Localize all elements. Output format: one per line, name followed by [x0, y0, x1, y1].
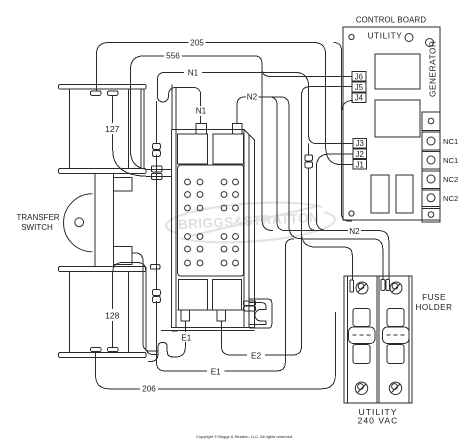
N2 terminal tab — [232, 124, 242, 135]
svg-text:J5: J5 — [355, 83, 364, 92]
neutral bar box — [178, 165, 244, 276]
fuse2 bottom screw — [389, 382, 401, 394]
panel bottom edge second line — [161, 330, 254, 332]
svg-text:J4: J4 — [355, 94, 364, 103]
fuse holder outline — [344, 276, 412, 403]
E2 terminal tab — [217, 310, 226, 321]
wire J2 to N2 run — [316, 154, 353, 231]
wire from actuator block down left bundle — [132, 253, 159, 351]
relay K1 — [375, 54, 420, 89]
svg-text:N1: N1 — [188, 68, 199, 77]
svg-text:NC2: NC2 — [443, 194, 458, 203]
svg-text:556: 556 — [166, 52, 180, 61]
panel outer edges — [172, 129, 255, 327]
coil 128 terminal b — [108, 347, 119, 351]
mounting hole top-left — [349, 34, 354, 39]
connector on E1 run lower — [153, 290, 161, 296]
wire N1: U around coil, label run, drop to J3 — [157, 72, 352, 143]
fuse1 top screw — [356, 282, 368, 294]
svg-text:NC1: NC1 — [443, 137, 458, 146]
wire E2: tab down, label, up to J5 — [222, 87, 353, 355]
svg-text:N2: N2 — [349, 227, 360, 236]
panel top block L — [178, 134, 208, 164]
strip separators — [422, 131, 440, 209]
svg-text:BRIGGS&STRATTON: BRIGGS&STRATTON — [178, 210, 320, 232]
svg-text:CONTROL BOARD: CONTROL BOARD — [356, 16, 426, 25]
strip screw terminals — [428, 118, 434, 124]
panel bottom block L — [178, 280, 207, 310]
connector J6 — [352, 72, 366, 82]
svg-text:127: 127 — [105, 124, 120, 134]
svg-text:J1: J1 — [356, 160, 364, 169]
svg-text:NC2: NC2 — [443, 175, 458, 184]
coil 128 terminal a — [91, 347, 102, 351]
actuator bottom step block — [113, 247, 132, 265]
wire J4 riser — [342, 101, 354, 114]
tab at coil128 plate end — [150, 265, 160, 270]
fuse1 wire entry — [350, 280, 354, 292]
connector on N1 drop — [305, 155, 313, 161]
mounting hole right of utility — [405, 34, 413, 42]
coil 128 top plate — [59, 267, 147, 272]
wire 206: coil128 term a to right rise — [96, 312, 336, 389]
wire a: coil area run to fuse2 left entry — [259, 97, 383, 279]
svg-text:128: 128 — [105, 310, 120, 320]
side bracket — [250, 299, 272, 328]
coil 127 top plate — [59, 85, 147, 90]
svg-text:240 VAC: 240 VAC — [358, 416, 399, 426]
coil 127 terminal b — [108, 91, 119, 95]
fuse holder divider — [377, 276, 379, 403]
connector J4 — [352, 93, 366, 103]
fuse2 cartridge — [387, 309, 404, 327]
connector J5 — [352, 82, 366, 92]
svg-text:E2: E2 — [251, 352, 261, 361]
board bottom component 2 — [396, 175, 413, 213]
panel bottom rail — [178, 309, 244, 311]
control board outline — [343, 27, 440, 220]
coil 127 body — [70, 89, 129, 169]
bracket stub connectors — [244, 301, 256, 306]
svg-text:206: 206 — [142, 385, 156, 394]
wire E1 tab hook — [148, 321, 185, 362]
svg-text:TRANSFER: TRANSFER — [16, 213, 59, 222]
coil 127 right rail pair — [141, 89, 144, 169]
watermark — [166, 203, 335, 243]
fuse1 cartridge — [353, 309, 370, 327]
fuse2 wire entries — [381, 280, 385, 291]
svg-text:GENERATOR: GENERATOR — [429, 40, 438, 97]
mounting hole bottom-left — [349, 211, 354, 216]
wire N2: tab up, label run, drop, run right to fuse 2 — [237, 97, 389, 279]
svg-text:205: 205 — [190, 39, 204, 48]
actuator bar — [95, 174, 113, 267]
wire N1 drop continues to N2 run (junction) — [309, 144, 317, 231]
coil 128 body — [70, 272, 129, 353]
connector on h169 — [151, 166, 162, 172]
wire coil127 term b down to panel — [113, 96, 172, 177]
svg-text:UTILITY: UTILITY — [368, 32, 403, 41]
connector on h176.4 — [151, 173, 162, 179]
mounting hole generator top — [426, 39, 434, 47]
connector J3 — [353, 138, 367, 148]
svg-text:Copyright © Briggs & Stratton,: Copyright © Briggs & Stratton, LLC. All … — [196, 434, 293, 439]
svg-text:HOLDER: HOLDER — [415, 303, 452, 312]
E1 terminal tab — [181, 310, 190, 321]
fuse1 bottom screw — [355, 382, 367, 394]
wire 556: left drop + run to J6 — [130, 56, 262, 170]
relay terminal strip — [422, 112, 440, 222]
svg-text:N1: N1 — [196, 106, 207, 115]
svg-text:J6: J6 — [355, 72, 363, 81]
board bottom component 1 — [371, 175, 389, 213]
panel bottom stub line — [172, 330, 178, 332]
neutral bar screws — [185, 179, 239, 266]
connector on E1 run upper — [153, 143, 161, 149]
wire coil128 term b up to panel — [113, 263, 159, 355]
wire board-left long vertical — [334, 43, 353, 222]
fuse holder inner edges — [347, 276, 409, 403]
fuse2 top screw — [390, 282, 402, 294]
svg-text:NC1: NC1 — [443, 156, 458, 165]
N1 terminal tab — [196, 124, 206, 135]
connector J2 — [353, 149, 367, 159]
wire 556 continuation down to N2 run — [262, 64, 273, 231]
panel top block R — [213, 134, 244, 164]
svg-text:J3: J3 — [356, 139, 364, 148]
connector J1 — [353, 160, 367, 170]
wire b: to fuse1 entry — [302, 233, 353, 279]
panel bottom block R — [212, 280, 241, 310]
actuator cam (semicircle) — [64, 194, 93, 252]
coil 127 terminal a — [91, 91, 102, 95]
svg-text:E1: E1 — [211, 368, 221, 377]
wire hugging panel left edge — [172, 85, 176, 134]
svg-text:E1: E1 — [181, 333, 191, 342]
wire E1 lower run — [157, 101, 294, 371]
svg-text:J2: J2 — [356, 150, 364, 159]
svg-text:SWITCH: SWITCH — [21, 223, 53, 232]
wire 205: coil127 term a to J2 via right drop — [96, 43, 353, 165]
coil 127 bottom plate — [59, 169, 147, 174]
actuator top step block — [113, 177, 132, 191]
coil 128 bottom plate — [59, 353, 147, 358]
actuator pivot — [75, 218, 84, 227]
svg-text:N2: N2 — [247, 93, 258, 102]
relay K2 — [375, 100, 420, 137]
svg-text:FUSE: FUSE — [422, 293, 446, 302]
wire 556 jog to J6 — [262, 64, 352, 77]
